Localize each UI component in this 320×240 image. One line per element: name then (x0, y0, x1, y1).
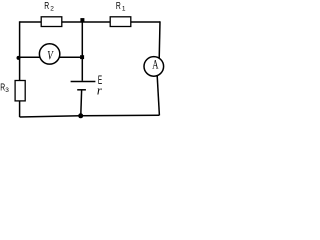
svg-text:1: 1 (122, 6, 126, 13)
svg-text:r: r (97, 83, 102, 97)
svg-text:3: 3 (5, 87, 9, 94)
svg-text:2: 2 (50, 6, 54, 13)
svg-text:R: R (44, 0, 49, 12)
svg-text:A: A (152, 57, 158, 71)
svg-text:R: R (116, 0, 121, 12)
